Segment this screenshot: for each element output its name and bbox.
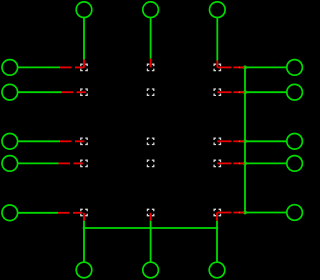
pin square P6 (col2,row1) <box>147 64 153 70</box>
terminal circle right2 <box>287 84 303 100</box>
terminal circle left5 <box>2 205 18 221</box>
wire bottom drop col2 <box>150 221 152 262</box>
junction right bus row4 <box>243 162 247 166</box>
wire right1 horizontal <box>239 66 287 68</box>
wire top1 vertical <box>83 18 85 59</box>
wire left3 horizontal <box>18 140 60 142</box>
wire right3 horizontal <box>239 140 287 142</box>
wire bottom drop col1 <box>83 221 85 262</box>
wire left5 horizontal <box>18 212 58 214</box>
terminal circle right3 <box>287 134 303 150</box>
terminal circle top2 <box>143 2 159 18</box>
pin stub red P5 left <box>58 212 82 214</box>
pin square P13 (col3,row3) <box>214 138 220 144</box>
terminal circle right5 <box>287 205 303 221</box>
pin stub red P6 top <box>150 59 152 68</box>
pin stub red P2 left <box>62 91 86 93</box>
pin square P3 (col1,row3) <box>81 138 87 144</box>
pin stub red P1 top <box>83 60 85 68</box>
pin stub red P1 left <box>60 66 84 68</box>
pin square P14 (col3,row4) <box>214 160 220 166</box>
pin stub red P13 right <box>217 140 244 142</box>
pin stub red P4 left <box>59 162 83 164</box>
pin square P15 (col3,row5) <box>214 209 220 215</box>
junction right bus row2 <box>243 90 247 94</box>
pin square P12 (col3,row2) <box>214 89 220 95</box>
junction bottom bus col3 <box>216 227 219 230</box>
terminal circle right4 <box>287 156 303 172</box>
junction right bus row5 <box>243 211 247 215</box>
wire right4 horizontal <box>239 162 287 164</box>
pin square P7 (col2,row2) <box>147 89 153 95</box>
pin stub red P11 top <box>216 61 218 68</box>
wire top3 vertical <box>216 18 218 60</box>
pin stub red P10 down <box>150 213 152 221</box>
wire right vertical bus <box>244 67 246 212</box>
pin stub red P15 right <box>217 212 244 214</box>
junction right bus row1 <box>243 66 247 70</box>
terminal circle right1 <box>287 60 303 76</box>
junction bottom bus col2 <box>149 227 152 230</box>
pin square P4 (col1,row4) <box>81 160 87 166</box>
terminal circle top3 <box>210 2 226 18</box>
pin stub red P15 down <box>216 213 218 221</box>
wire left2 horizontal <box>18 91 62 93</box>
pin square P5 (col1,row5) <box>81 209 87 215</box>
pin stub red P14 right <box>217 162 244 164</box>
junction bottom bus col1 <box>83 227 86 230</box>
terminal circle bottom3 <box>209 262 225 278</box>
wire left1 horizontal <box>18 66 60 68</box>
wire left4 horizontal <box>18 162 59 164</box>
wire right5 horizontal <box>239 212 287 214</box>
pin square P1 (col1,row1) <box>81 64 87 70</box>
pin square P10 (col2,row5) <box>147 209 153 215</box>
terminal circle left1 <box>2 60 18 76</box>
pin stub red P5 down <box>83 213 85 221</box>
wire bottom bus horizontal <box>84 227 217 229</box>
pin stub red P11 right <box>217 66 244 68</box>
wire bottom drop col3 <box>216 221 218 262</box>
pin square P11 (col3,row1) <box>214 64 220 70</box>
pin square P9 (col2,row4) <box>147 160 153 166</box>
pin stub red P12 right <box>217 91 244 93</box>
terminal circle bottom1 <box>76 262 92 278</box>
junction right bus row3 <box>243 139 247 143</box>
pin stub red P3 left <box>60 140 84 142</box>
terminal circle bottom2 <box>143 262 159 278</box>
wire top2 vertical <box>150 18 152 58</box>
terminal circle left4 <box>2 156 18 172</box>
terminal circle top1 <box>76 2 92 18</box>
terminal circle left2 <box>2 84 18 100</box>
terminal circle left3 <box>2 134 18 150</box>
wire right2 horizontal <box>239 91 287 93</box>
pin square P2 (col1,row2) <box>81 89 87 95</box>
pin square P8 (col2,row3) <box>147 138 153 144</box>
